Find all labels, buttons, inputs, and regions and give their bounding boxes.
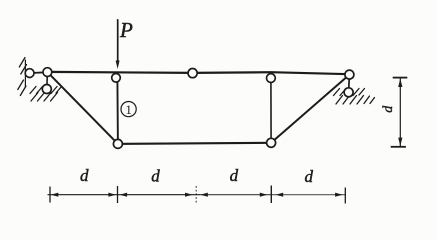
svg-text:P: P (119, 18, 133, 42)
svg-text:d: d (381, 105, 396, 113)
svg-text:d: d (151, 166, 160, 185)
svg-text:d: d (80, 166, 89, 185)
svg-text:d: d (304, 167, 313, 186)
svg-text:d: d (230, 166, 239, 185)
svg-text:1: 1 (125, 102, 132, 117)
